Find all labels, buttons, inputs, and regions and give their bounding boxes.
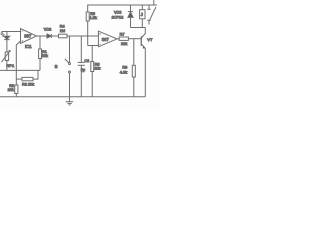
resistor R2 — [16, 70, 38, 80]
resistor R4 — [59, 34, 99, 38]
wire: lower-left horizontal wire — [0, 69, 40, 71]
relay J — [140, 5, 145, 28]
svg-text:R8: R8 — [122, 66, 127, 70]
svg-text:2μ: 2μ — [81, 68, 85, 72]
svg-text:387: 387 — [24, 34, 32, 39]
photodiode VD1 — [0, 32, 10, 53]
resistor R1 — [39, 36, 42, 70]
wire: IC2 inverting input stub — [88, 45, 99, 47]
svg-text:J: J — [141, 12, 143, 17]
wire: flyback to collector jog — [131, 27, 146, 29]
svg-text:C2: C2 — [84, 59, 89, 63]
wire: IC1 output node — [37, 35, 48, 37]
diode VD3 flyback — [128, 5, 133, 28]
svg-text:RP1: RP1 — [6, 63, 15, 68]
wire: top-left input wire to IC1 inverting input — [2, 32, 21, 36]
wire: IC1 non-inverting input to R2/R3 node — [16, 41, 20, 85]
resistor R8 — [132, 39, 135, 97]
op-amp IC2 — [98, 31, 117, 47]
ground — [66, 97, 74, 105]
switch S — [65, 36, 71, 97]
svg-text:IC1: IC1 — [25, 44, 32, 49]
top supply bus — [88, 5, 157, 12]
svg-text:1M: 1M — [60, 29, 65, 33]
svg-text:S: S — [55, 64, 58, 69]
svg-text:VD2: VD2 — [44, 27, 51, 31]
svg-text:30k: 30k — [42, 54, 48, 58]
svg-text:VD3: VD3 — [114, 11, 121, 15]
wire: IC2 output to R7 — [117, 38, 119, 40]
svg-text:2CP12: 2CP12 — [112, 16, 124, 20]
potentiometer RP1 — [2, 50, 11, 70]
transistor VT — [141, 28, 145, 97]
svg-text:4.3k: 4.3k — [120, 70, 127, 74]
resistor R6 — [91, 46, 94, 97]
relay contact K — [147, 0, 156, 25]
resistor R3 — [15, 85, 18, 97]
svg-text:20k: 20k — [8, 88, 14, 92]
diode VD2 — [47, 34, 59, 38]
svg-text:22k: 22k — [121, 42, 127, 46]
svg-text:20k: 20k — [94, 67, 100, 71]
op-amp IC1 — [21, 29, 37, 44]
resistor R7 — [119, 37, 141, 40]
svg-text:VT: VT — [147, 37, 153, 42]
svg-text:1.5k: 1.5k — [90, 16, 97, 20]
svg-text:387: 387 — [102, 37, 110, 42]
resistor R5 — [86, 12, 89, 46]
svg-text:R2 20k: R2 20k — [22, 83, 34, 87]
capacitor C2 — [78, 36, 85, 97]
bottom bus — [0, 96, 145, 98]
svg-text:R7: R7 — [120, 32, 125, 36]
